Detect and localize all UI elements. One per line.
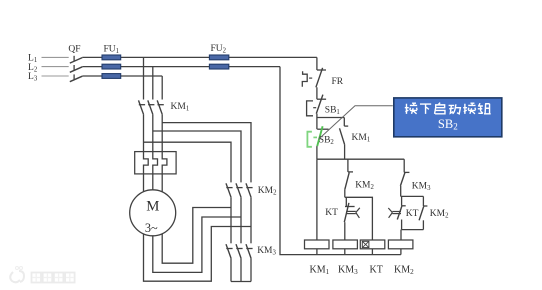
svg-text:QF: QF: [68, 44, 80, 54]
svg-text:M: M: [146, 199, 159, 215]
svg-text:FR: FR: [332, 77, 344, 87]
svg-text:KT: KT: [406, 209, 419, 219]
svg-text:KT: KT: [370, 264, 383, 275]
svg-text:3~: 3~: [145, 221, 158, 235]
svg-text:KT: KT: [325, 208, 338, 218]
